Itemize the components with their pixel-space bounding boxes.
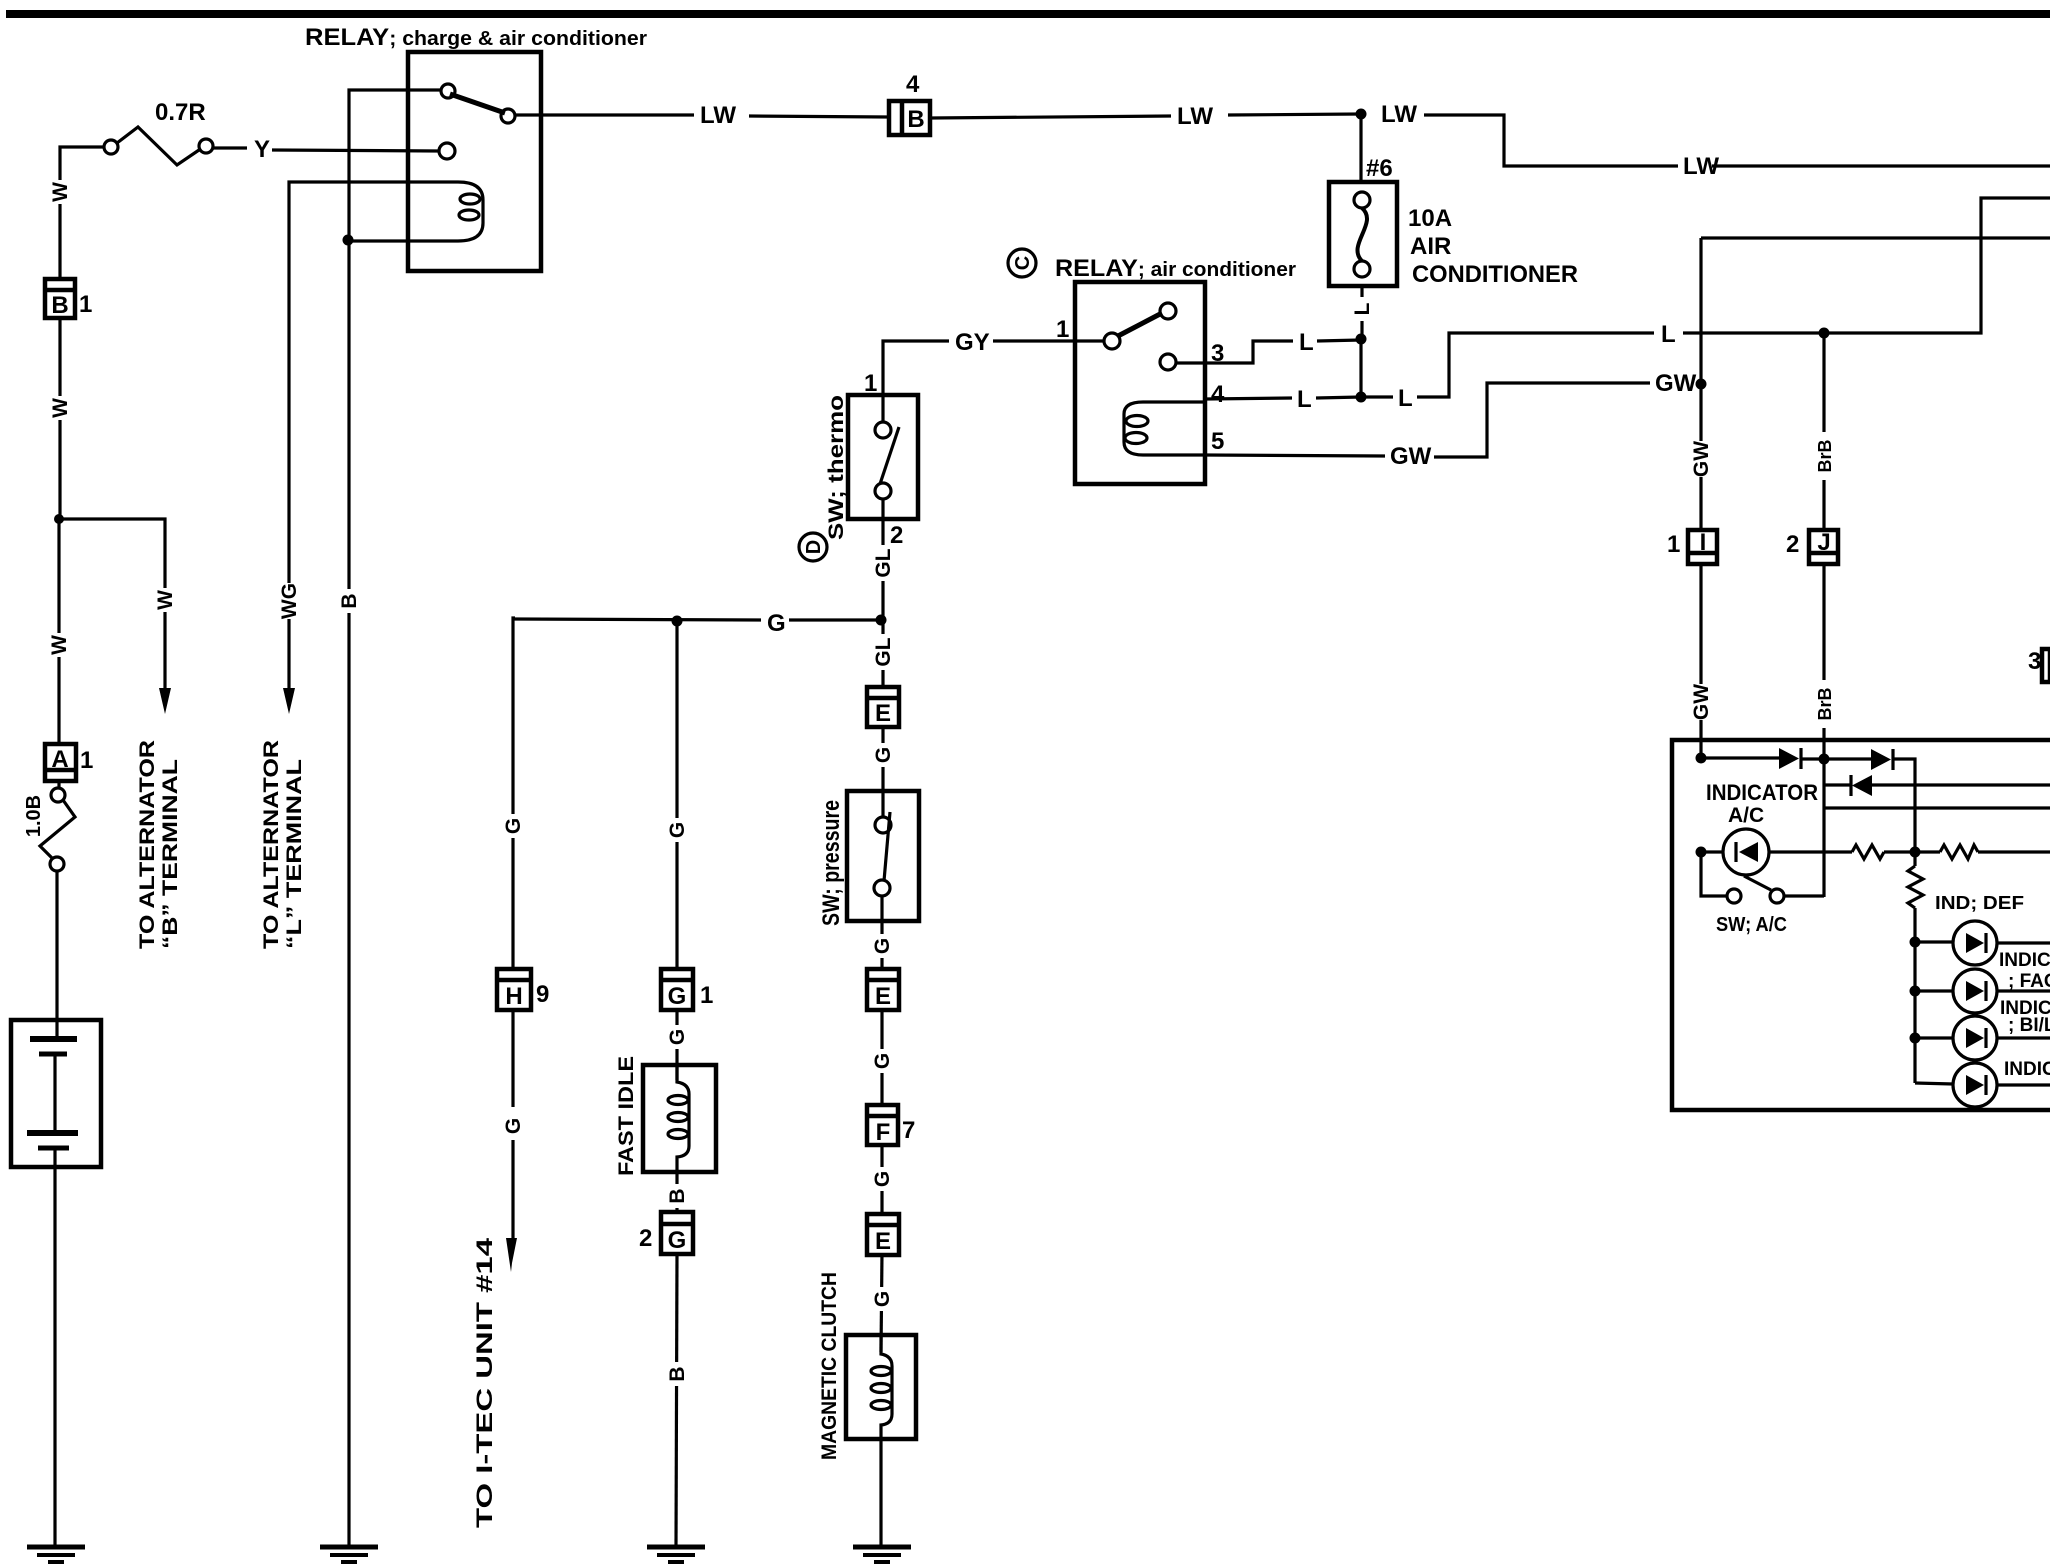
node junction BrB indicator [1819, 754, 1830, 765]
node junction LED AC [1696, 847, 1707, 858]
relay coil [291, 182, 483, 241]
svg-text:INDIC: INDIC [1999, 950, 2050, 971]
wire label W [49, 180, 72, 204]
wire label G rotated [666, 818, 689, 842]
wire BrB connector J to indicator box [1822, 562, 1825, 759]
svg-text:3: 3 [2028, 648, 2041, 675]
svg-text:MAGNETIC CLUTCH: MAGNETIC CLUTCH [818, 1272, 841, 1460]
fusible link 1.0B [40, 780, 75, 871]
svg-text:G: G [666, 822, 689, 838]
wire battery to ground [53, 1150, 56, 1546]
svg-text:G: G [502, 1118, 525, 1134]
node junction BrB [1819, 328, 1830, 339]
connector J 2 [1809, 529, 1838, 564]
resistor R3 vertical [1908, 866, 1923, 908]
svg-text:1: 1 [79, 291, 92, 318]
wire G pressure to connector E [880, 921, 883, 969]
relay contact common [501, 109, 515, 123]
wire label B [338, 589, 361, 613]
svg-text:0.7R: 0.7R [155, 99, 206, 126]
connector B 1 [45, 279, 75, 319]
wire LW connector 4 to junction [931, 116, 1171, 118]
wire Y from ignition switch to relay [213, 146, 247, 149]
svg-text:W: W [49, 182, 72, 202]
svg-text:LW: LW [1381, 101, 1417, 128]
svg-text:A: A [51, 746, 68, 773]
connector E b [867, 969, 899, 1010]
svg-text:SW; pressure: SW; pressure [818, 800, 845, 926]
magnetic clutch coil [871, 1337, 892, 1439]
magnetic clutch box [846, 1335, 916, 1439]
connector E c [867, 1214, 899, 1255]
LED indicator DEF [1953, 921, 1997, 965]
svg-text:; FAC: ; FAC [2008, 971, 2050, 992]
wire [1978, 850, 2050, 853]
wire branch to alternator B terminal [59, 519, 165, 688]
wire W1 [1701, 756, 1779, 759]
wire L junction 2 to right [1361, 395, 1393, 398]
svg-text:LW: LW [700, 102, 736, 129]
connector 4 B [889, 101, 930, 135]
svg-text:TO ALTERNATOR: TO ALTERNATOR [260, 740, 283, 949]
svg-text:B: B [907, 106, 924, 133]
node junction L1 [1356, 334, 1367, 345]
LED indicator A/C [1723, 829, 1769, 875]
wire label G rotated [502, 1114, 525, 1138]
svg-text:9: 9 [536, 981, 549, 1008]
wire W3 [1824, 806, 2050, 809]
arrow to I-TEC unit [506, 1238, 517, 1272]
svg-text:#6: #6 [1366, 155, 1393, 182]
svg-text:1: 1 [1667, 531, 1680, 558]
svg-text:L: L [1351, 302, 1374, 315]
relay C pin 3 contact [1160, 354, 1176, 370]
wire [1317, 340, 1361, 341]
svg-text:GW: GW [1690, 441, 1713, 477]
connector H 9 [497, 969, 531, 1010]
wire pin 3 to L [1176, 341, 1293, 363]
svg-text:L: L [1299, 329, 1314, 356]
wire BrB junction to connector J [1822, 333, 1825, 531]
svg-text:WG: WG [278, 583, 301, 619]
wire W from connector B to junction [58, 318, 61, 519]
wire LED4 [1915, 1083, 1953, 1084]
wire label GW rotated [1690, 684, 1713, 720]
wire B from relay coil junction to ground [347, 240, 350, 1546]
label D circled [799, 533, 827, 561]
wire pin 5 GW [1205, 455, 1385, 456]
battery [11, 1020, 101, 1167]
wire G horizontal [514, 619, 761, 620]
LED indicator BI-LEVEL [1953, 1016, 1997, 1060]
node junction GW [1696, 379, 1707, 390]
wire label W [48, 633, 71, 657]
svg-text:E: E [875, 1228, 891, 1255]
svg-text:G: G [502, 818, 525, 834]
wire [749, 116, 888, 117]
relay C coil [1124, 402, 1205, 455]
wire Y to relay pin [272, 150, 439, 151]
wire top right horizontal [1701, 236, 2050, 239]
wire GL junction to connector E [881, 620, 884, 688]
switch SW pressure [847, 791, 919, 921]
svg-text:G: G [871, 1053, 894, 1069]
wire GL thermo to junction [881, 519, 884, 620]
wire label G rotated [871, 934, 894, 958]
svg-text:C: C [1012, 256, 1034, 270]
svg-text:L: L [1661, 321, 1676, 348]
svg-text:AIR: AIR [1410, 233, 1451, 260]
wire [1228, 114, 1361, 115]
svg-text:SW; A/C: SW; A/C [1716, 914, 1787, 936]
svg-text:2: 2 [890, 522, 903, 549]
connector G 2 [661, 1212, 693, 1254]
wire [1997, 989, 2050, 992]
top border bar [6, 10, 2050, 18]
wire [1801, 757, 1824, 760]
node junction coil B [343, 235, 354, 246]
svg-text:1.0B: 1.0B [23, 795, 45, 837]
wire [1915, 940, 1953, 943]
arrow to alternator L terminal [283, 688, 295, 714]
wire label G rotated [666, 1025, 689, 1049]
relay contact arm [450, 94, 505, 113]
label TO ALTERNATOR "L" TERMINAL [260, 740, 306, 949]
node junction LED2 [1910, 986, 1921, 997]
svg-text:L: L [1398, 385, 1413, 412]
svg-text:4: 4 [1211, 381, 1225, 408]
fuse 10A air conditioner [1329, 182, 1397, 286]
svg-text:H: H [505, 983, 522, 1010]
wire L up to bus [1417, 333, 1654, 397]
wire [1701, 850, 1723, 853]
wire W2 [1824, 783, 2050, 786]
svg-text:GW: GW [1690, 684, 1713, 720]
svg-text:10A: 10A [1408, 205, 1452, 232]
connector 3 at right edge [2042, 649, 2050, 682]
wire label G rotated [871, 1287, 894, 1311]
wire between L junctions [1359, 339, 1362, 397]
wire G to connector F [880, 1009, 883, 1105]
relay C contact common [1104, 333, 1120, 349]
svg-text:G: G [871, 938, 894, 954]
relay C contact upper [1160, 303, 1176, 319]
wire label GW rotated [1690, 441, 1713, 477]
wire [1884, 850, 1940, 853]
wire L to corner [1683, 198, 2050, 333]
wire label GL rotated [872, 545, 895, 581]
arrow to alternator B terminal [159, 688, 171, 714]
wire [1997, 941, 2050, 944]
svg-text:1: 1 [700, 982, 713, 1009]
label 10A AIR CONDITIONER [1408, 205, 1578, 288]
resistor R1 [1852, 845, 1884, 859]
wire ladder vertical [1913, 852, 1916, 1083]
wire fuse to L junction [1360, 286, 1363, 339]
svg-text:GW: GW [1390, 443, 1432, 470]
wire GW vertical [1699, 238, 1702, 529]
ground fast idle line [647, 1547, 705, 1562]
node junction LED1 [1910, 937, 1921, 948]
svg-text:LW: LW [1177, 103, 1213, 130]
svg-text:Y: Y [254, 136, 270, 163]
wire pin 4 to L [1205, 398, 1292, 399]
svg-text:INDICATOR: INDICATOR [1706, 780, 1818, 805]
indicator panel box [1672, 740, 2050, 1110]
svg-text:FAST IDLE: FAST IDLE [615, 1056, 638, 1176]
diode D2 [1871, 749, 1893, 770]
svg-text:D: D [803, 540, 825, 554]
wire to ladder corner [1893, 759, 1915, 852]
wire [511, 1140, 514, 1240]
wire LED AC to resistor [1769, 850, 1852, 853]
wire GW connector I to indicator box [1699, 562, 1702, 758]
svg-text:2: 2 [639, 1225, 652, 1252]
wire label B rotated [666, 1184, 689, 1208]
relay contact fixed top [441, 84, 455, 98]
wire label G rotated [871, 1049, 894, 1073]
svg-text:G: G [871, 1291, 894, 1307]
wire G to I-TEC arrow [511, 1008, 514, 1107]
fast idle coil [668, 1066, 689, 1172]
wire label W [49, 396, 72, 420]
svg-text:E: E [875, 983, 891, 1010]
svg-text:IND; DEF: IND; DEF [1935, 893, 2024, 913]
svg-text:G: G [666, 1029, 689, 1045]
svg-text:RELAY; charge & air conditione: RELAY; charge & air conditioner [305, 24, 647, 51]
wire [1824, 757, 1871, 760]
wire magnetic clutch to ground [879, 1439, 882, 1546]
svg-text:2: 2 [1786, 531, 1799, 558]
svg-text:SW; thermo: SW; thermo [825, 395, 848, 540]
wire G left column down [513, 618, 515, 968]
wire [1915, 989, 1953, 992]
node junction LW [1356, 109, 1367, 120]
svg-text:TO I-TEC UNIT #14: TO I-TEC UNIT #14 [472, 1237, 497, 1528]
wire [1997, 1083, 2050, 1086]
svg-text:G: G [871, 1171, 894, 1187]
svg-text:“B” TERMINAL: “B” TERMINAL [159, 759, 182, 949]
label C circled [1008, 249, 1036, 277]
connector G 1 [661, 969, 693, 1010]
wire label B rotated [666, 1362, 689, 1386]
svg-text:B: B [666, 1188, 689, 1203]
wire GW up right [1434, 383, 1650, 457]
wire [1712, 164, 2050, 167]
svg-text:1: 1 [80, 747, 93, 774]
wire LW relay to connector 4 [515, 113, 694, 116]
switch SW thermo [848, 395, 918, 519]
connector E a [867, 687, 899, 727]
wire BrB vertical inside box [1822, 759, 1825, 897]
wire label GL rotated [872, 634, 895, 670]
svg-text:INDIC: INDIC [2004, 1059, 2050, 1080]
relay pin middle [439, 143, 455, 159]
wire [1915, 1036, 1953, 1039]
wire LW to right edge [1424, 115, 1678, 166]
svg-text:L: L [1297, 386, 1312, 413]
wire label G rotated [872, 743, 895, 767]
svg-text:5: 5 [1211, 428, 1224, 455]
svg-text:GY: GY [955, 329, 990, 356]
svg-text:W: W [154, 590, 177, 610]
wire contact to left vertical [349, 90, 441, 240]
svg-text:7: 7 [902, 1117, 915, 1144]
ground battery [27, 1547, 85, 1562]
wire label W [154, 588, 177, 612]
svg-text:G: G [668, 983, 687, 1010]
svg-text:GL: GL [872, 548, 895, 577]
node junction ladder [1910, 847, 1921, 858]
svg-text:J: J [1817, 529, 1830, 556]
ground magnetic clutch [853, 1547, 911, 1562]
wire B below fast idle [675, 1172, 678, 1212]
wire label BrB rotated [1813, 680, 1835, 728]
svg-text:4: 4 [906, 71, 920, 98]
svg-text:B: B [666, 1366, 689, 1381]
node junction GW indicator [1696, 753, 1707, 764]
wire label L rotated [1351, 297, 1374, 321]
svg-text:GL: GL [872, 637, 895, 666]
svg-text:G: G [872, 747, 895, 763]
label TO ALTERNATOR "B" TERMINAL [136, 740, 182, 949]
diode D1 [1779, 748, 1801, 769]
switch SW A/C [1701, 852, 1824, 903]
fast idle solenoid box [643, 1065, 716, 1172]
wire W from ignition switch to connector B [60, 147, 104, 278]
relay C contact arm [1118, 313, 1162, 336]
svg-text:A/C: A/C [1728, 804, 1764, 827]
svg-text:F: F [876, 1119, 891, 1146]
connector F 7 [867, 1105, 898, 1146]
svg-text:W: W [48, 635, 71, 655]
wire G to pressure switch [881, 725, 884, 791]
wire B to ground [676, 1253, 677, 1546]
wire GY thermo to relay pin 1 [883, 341, 949, 395]
svg-text:I: I [1700, 529, 1707, 556]
wire label G rotated [871, 1167, 894, 1191]
node junction LED3 [1910, 1033, 1921, 1044]
wire [993, 339, 1104, 342]
wire [1997, 1036, 2050, 1039]
resistor R2 [1940, 845, 1978, 859]
svg-text:GW: GW [1655, 370, 1697, 397]
wire to battery [55, 871, 58, 1037]
svg-text:B: B [338, 593, 361, 608]
relay air conditioner box [1075, 282, 1205, 484]
node junction G [672, 616, 683, 627]
svg-text:E: E [875, 700, 891, 727]
switch SW1 ignition 0.7R [104, 127, 213, 165]
wire G1 column down [675, 621, 678, 968]
svg-text:G: G [668, 1227, 687, 1254]
diode D3 pointing left [1851, 775, 1872, 796]
svg-text:; BI/L: ; BI/L [2008, 1015, 2050, 1036]
wire [789, 618, 881, 621]
svg-text:TO ALTERNATOR: TO ALTERNATOR [136, 740, 159, 949]
wire LW junction to fuse [1359, 114, 1362, 182]
connector A 1 [45, 744, 76, 781]
svg-text:BrB: BrB [1815, 439, 1835, 472]
connector I 1 [1688, 529, 1717, 564]
wire G to fast idle [675, 1008, 678, 1080]
svg-text:BrB: BrB [1815, 687, 1835, 720]
relay charge and AC box [408, 52, 541, 271]
ground B [320, 1547, 378, 1562]
wire W from junction to connector A [57, 519, 60, 743]
svg-text:B: B [51, 292, 68, 319]
wire label WG [278, 583, 301, 619]
node junction L2 [1356, 392, 1367, 403]
node junction GL [876, 615, 887, 626]
LED indicator 4 [1953, 1063, 1997, 1107]
svg-text:W: W [49, 398, 72, 418]
svg-text:G: G [767, 610, 786, 637]
wire coil bottom to junction [348, 239, 413, 242]
wire label BrB rotated [1813, 432, 1835, 480]
svg-text:RELAY; air conditioner: RELAY; air conditioner [1055, 255, 1296, 282]
svg-text:“L” TERMINAL: “L” TERMINAL [283, 759, 306, 949]
node junction W [54, 514, 64, 524]
wire G to connector E c [880, 1144, 883, 1214]
wire label G rotated [502, 814, 525, 838]
LED indicator FACE [1953, 969, 1997, 1013]
svg-text:CONDITIONER: CONDITIONER [1412, 261, 1578, 288]
wire WG to alternator L terminal [289, 182, 291, 688]
svg-text:1: 1 [1056, 316, 1069, 343]
wire [1316, 397, 1361, 398]
wire G to magnetic clutch [881, 1253, 882, 1352]
